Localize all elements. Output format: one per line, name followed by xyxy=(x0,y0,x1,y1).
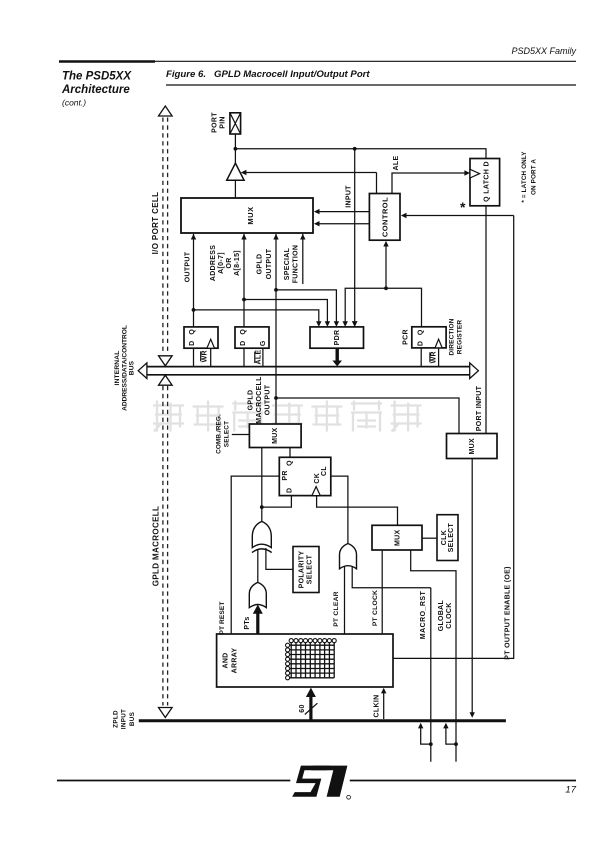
svg-text:A[0-7]: A[0-7] xyxy=(218,252,225,274)
wire xor right input from polarity select xyxy=(266,548,293,569)
svg-text:BUS: BUS xyxy=(129,712,136,726)
svg-text:Q: Q xyxy=(189,329,196,335)
svg-text:GPLD: GPLD xyxy=(248,390,255,411)
svg-text:ALE: ALE xyxy=(393,156,400,171)
wire node to buffer xyxy=(234,149,236,164)
wire GLOBAL CLOCK xyxy=(411,550,456,762)
svg-text:ZPLD: ZPLD xyxy=(112,710,119,728)
wire INPUT pin to PDR xyxy=(354,149,356,326)
zpld input bus xyxy=(139,719,506,722)
svg-text:SELECT: SELECT xyxy=(448,522,455,552)
svg-text:FUNCTION: FUNCTION xyxy=(293,245,300,284)
wire PT RESET to FF PR xyxy=(231,476,279,634)
wire mux reg input from FF Q xyxy=(289,448,291,458)
flip-flop FF1 (PR Q D CK CL) xyxy=(279,457,331,495)
clk select box xyxy=(437,515,458,561)
svg-text:Q: Q xyxy=(418,329,425,335)
port pin symbol xyxy=(230,113,241,134)
internal address/data/control bus xyxy=(146,366,471,368)
svg-text:SELECT: SELECT xyxy=(307,554,314,584)
label ALE xyxy=(254,352,256,364)
wire ADDRESS w2 xyxy=(243,239,245,327)
wire MACRO_RST xyxy=(430,588,432,762)
mux U4 clock select mux xyxy=(372,525,422,550)
register PDR xyxy=(310,327,364,348)
svg-text:OUTPUT: OUTPUT xyxy=(185,251,192,282)
wire FF clock from clock mux xyxy=(317,496,398,526)
svg-text:OUTPUT: OUTPUT xyxy=(266,248,273,279)
svg-text:REGISTER: REGISTER xyxy=(456,320,463,355)
wire MACRO_RST input xyxy=(352,566,431,588)
svg-text:D: D xyxy=(240,341,247,346)
wire control to mux select 1 xyxy=(316,211,369,213)
svg-text:ALE: ALE xyxy=(256,350,263,365)
svg-text:PT OUTPUT ENABLE (OE): PT OUTPUT ENABLE (OE) xyxy=(504,566,511,659)
svg-text:OR: OR xyxy=(226,257,233,268)
buffer (output driver) xyxy=(227,163,244,180)
wire FF D input xyxy=(262,496,292,508)
svg-text:PT CLOCK: PT CLOCK xyxy=(372,590,379,626)
svg-text:ADDRESS/DATA/CONTROL: ADDRESS/DATA/CONTROL xyxy=(121,325,128,411)
svg-text:The PSD5XX: The PSD5XX xyxy=(62,71,132,83)
mux U3 comb/reg select mux xyxy=(249,424,301,448)
svg-text:POLARITY: POLARITY xyxy=(299,551,306,589)
wire FF CL from clear OR xyxy=(331,476,348,545)
wire PDR to bus (thick) xyxy=(336,348,339,361)
latch U2 Q LATCH D xyxy=(470,159,500,206)
wire PTs thick arrow xyxy=(256,614,259,635)
svg-text:D: D xyxy=(189,341,196,346)
svg-text:INPUT: INPUT xyxy=(346,185,353,208)
svg-text:PR: PR xyxy=(282,470,289,480)
svg-text:* = LATCH ONLY: * = LATCH ONLY xyxy=(521,151,528,203)
wire PT CLEAR input xyxy=(344,566,346,634)
svg-text:MACROCELL: MACROCELL xyxy=(256,376,263,424)
register R2 address latch (D Q, G, ALE) xyxy=(235,327,269,348)
wire OE into control xyxy=(404,215,514,217)
figure rule xyxy=(166,84,576,86)
wire control to internal bus link xyxy=(385,244,387,289)
register R1 data-out (D Q, WR) xyxy=(184,327,218,348)
wire control to mux select 2 xyxy=(316,223,369,225)
footer rule xyxy=(57,780,290,782)
wire latch Q to port input mux xyxy=(485,206,487,434)
svg-text:INPUT: INPUT xyxy=(121,709,128,729)
node junction xyxy=(234,147,238,151)
mux U1 output mux xyxy=(181,198,313,233)
svg-text:BUS: BUS xyxy=(129,360,136,375)
svg-text:WR: WR xyxy=(431,351,438,363)
svg-text:PORT: PORT xyxy=(211,112,218,133)
watermark xyxy=(153,401,422,432)
wire PT output enable xyxy=(393,216,514,659)
svg-text:AND: AND xyxy=(222,652,229,668)
svg-text:Figure 6. GPLD Macrocell Inp: Figure 6. GPLD Macrocell Input/Output Po… xyxy=(166,69,370,80)
svg-text:MUX: MUX xyxy=(272,427,279,443)
svg-text:Q: Q xyxy=(286,460,293,466)
svg-text:CLOCK: CLOCK xyxy=(446,602,453,628)
svg-text:GLOBAL: GLOBAL xyxy=(438,600,445,632)
wire mux comb input xyxy=(261,448,263,508)
svg-text:MUX: MUX xyxy=(246,206,255,224)
svg-text:MUX: MUX xyxy=(469,438,476,454)
svg-text:DIRECTION: DIRECTION xyxy=(449,318,456,355)
svg-text:17: 17 xyxy=(565,785,576,796)
wire clk select link xyxy=(422,537,437,539)
svg-text:I/O PORT CELL: I/O PORT CELL xyxy=(151,192,160,255)
svg-text:A[8-15]: A[8-15] xyxy=(234,250,241,276)
wire buffer to mux xyxy=(234,180,236,198)
svg-text:CK: CK xyxy=(314,473,321,484)
polarity select box xyxy=(293,547,319,593)
control block xyxy=(369,194,400,241)
wire comb/reg select xyxy=(232,434,250,436)
svg-text:GPLD MACROCELL: GPLD MACROCELL xyxy=(152,506,161,586)
or gate G3 clear xyxy=(340,544,357,569)
svg-text:INTERNAL: INTERNAL xyxy=(114,351,121,386)
svg-text:CONTROL: CONTROL xyxy=(381,197,390,237)
svg-text:OUTPUT: OUTPUT xyxy=(264,384,271,415)
svg-text:PCR: PCR xyxy=(403,329,410,345)
wire CLK IN xyxy=(383,690,385,719)
ST logo xyxy=(292,766,350,800)
svg-text:60: 60 xyxy=(299,704,306,712)
wire GPLD OUTPUT w3 xyxy=(275,239,277,425)
svg-text:SPECIAL: SPECIAL xyxy=(284,247,291,280)
I/O PORT CELL dashed boundary xyxy=(163,118,168,706)
svg-text:MACRO_RST: MACRO_RST xyxy=(420,591,427,640)
global clock bus tap xyxy=(454,742,458,746)
wire ALE control to latch gate xyxy=(392,173,468,194)
label WR 2 xyxy=(429,352,431,362)
wire pin to node xyxy=(234,134,236,149)
junction input branch xyxy=(353,147,357,151)
wire SPECIAL FUNCTION stub xyxy=(302,239,304,285)
svg-text:(cont.): (cont.) xyxy=(62,98,86,108)
svg-text:ARRAY: ARRAY xyxy=(232,648,239,674)
svg-text:PT CLEAR: PT CLEAR xyxy=(333,591,340,627)
header rule xyxy=(59,60,155,63)
or gate G2 product terms xyxy=(249,582,266,607)
wire 60-wide input thick arrow xyxy=(309,697,312,720)
wire macrocell output to port input mux xyxy=(276,398,459,434)
wire control to buffer enable xyxy=(243,172,377,174)
svg-text:Architecture: Architecture xyxy=(61,84,130,96)
mux U5 port input mux xyxy=(447,434,498,459)
and array block xyxy=(217,634,393,687)
svg-text:CLK: CLK xyxy=(441,530,448,545)
wire OUTPUT w1 xyxy=(193,239,195,327)
svg-text:WR: WR xyxy=(202,350,209,362)
svg-text:Q: Q xyxy=(240,329,247,335)
svg-text:PIN: PIN xyxy=(220,116,227,129)
svg-text:PORT INPUT: PORT INPUT xyxy=(476,385,483,431)
register PCR direction register xyxy=(412,327,446,348)
svg-text:SELECT: SELECT xyxy=(224,421,231,447)
wire xor left input from OR xyxy=(257,549,259,583)
svg-text:ADDRESS: ADDRESS xyxy=(210,245,217,281)
svg-text:Q LATCH D: Q LATCH D xyxy=(483,161,490,202)
svg-text:ON PORT A: ON PORT A xyxy=(530,159,537,195)
wire port input mux to zpld bus xyxy=(471,459,473,715)
svg-text:PT RESET: PT RESET xyxy=(219,601,226,634)
wire PT CLOCK xyxy=(381,550,383,634)
macro_rst bus tap xyxy=(429,742,433,746)
and array fuse grid xyxy=(288,641,334,678)
svg-text:D: D xyxy=(418,341,425,346)
svg-text:CL: CL xyxy=(321,466,328,476)
wire node to latch D xyxy=(235,149,486,159)
svg-text:PTs: PTs xyxy=(244,616,251,629)
svg-text:*: * xyxy=(460,199,466,215)
svg-text:CLKIN: CLKIN xyxy=(374,695,381,718)
svg-text:GPLD: GPLD xyxy=(257,254,264,275)
xor gate G1 polarity xyxy=(261,507,263,522)
svg-text:D: D xyxy=(286,488,293,493)
label WR xyxy=(200,351,202,361)
svg-text:COMB./REG.: COMB./REG. xyxy=(216,414,223,454)
svg-text:MUX: MUX xyxy=(395,530,402,546)
svg-text:PDR: PDR xyxy=(334,330,341,346)
wire internal control link xyxy=(345,288,421,327)
svg-text:G: G xyxy=(260,340,267,346)
svg-text:PSD5XX Family: PSD5XX Family xyxy=(511,46,576,56)
bus width slash 60 xyxy=(305,703,318,714)
